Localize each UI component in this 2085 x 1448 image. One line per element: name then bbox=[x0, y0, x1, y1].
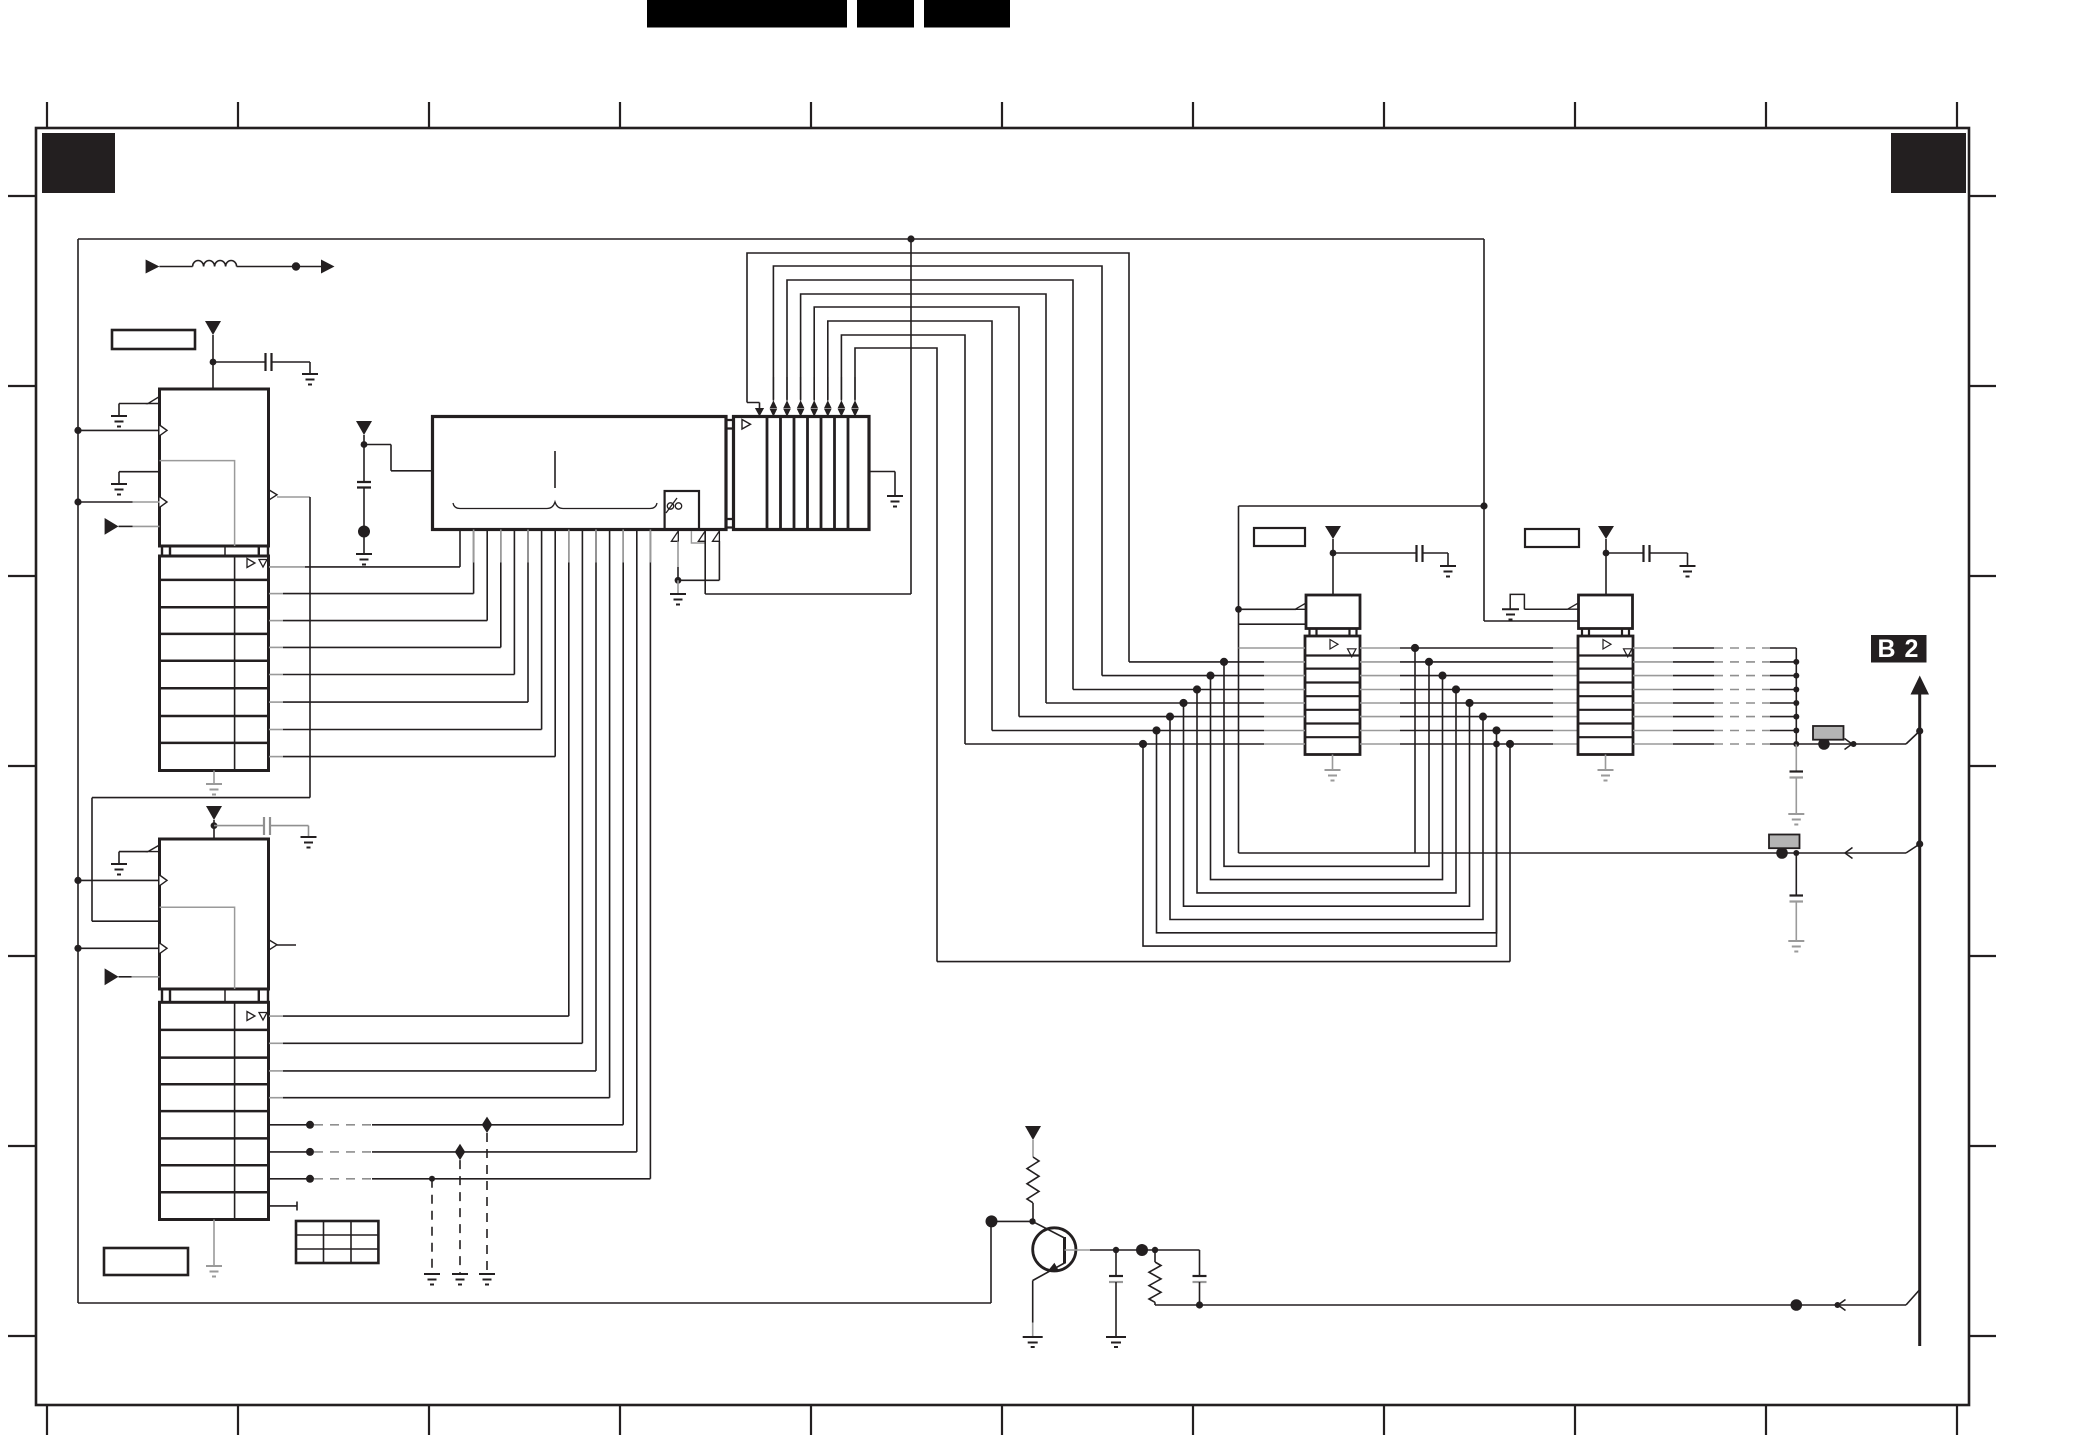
wire VCC to U2 bbox=[213, 820, 215, 839]
IC2 table row lines bbox=[160, 1030, 269, 1192]
corner reference square top-left bbox=[42, 133, 115, 193]
capacitor C1 bbox=[266, 353, 272, 371]
IC1 table glyph down-triangle bbox=[259, 560, 267, 568]
part code box line B (gray) bbox=[1769, 835, 1800, 849]
wire C7 to ground (gray) bbox=[1795, 778, 1797, 815]
wire emitter gray bbox=[1032, 1323, 1034, 1338]
junction row7 drop bbox=[429, 1176, 435, 1182]
test point dot collector bbox=[1136, 1244, 1148, 1256]
pin fan U3 to IC1 row5 bbox=[513, 530, 515, 675]
U6 ground stem (gray) bbox=[1605, 755, 1607, 771]
capacitor C7 bbox=[1790, 770, 1804, 772]
loop under U5 row5 bbox=[1184, 703, 1470, 906]
crystal glyph slash bbox=[666, 498, 677, 513]
net CLK main loop: left wire bbox=[77, 239, 79, 1303]
wire C9 to ground bbox=[1115, 1282, 1117, 1337]
IC1 table divider bbox=[234, 556, 236, 771]
capacitor C8 bbox=[1790, 894, 1804, 896]
capacitor C5 bbox=[1417, 545, 1423, 562]
junction C10 bottom bbox=[1196, 1301, 1203, 1308]
junction VCC node U2 bbox=[211, 822, 218, 829]
ground U4 bbox=[887, 496, 903, 507]
loop under U5 row7 bbox=[1157, 731, 1497, 933]
junction line B on B2 bus bbox=[1916, 840, 1923, 847]
U4 right pin wire to ground bbox=[869, 472, 895, 497]
ground C6 bbox=[1680, 566, 1696, 577]
ground C3 bbox=[356, 554, 372, 565]
bus loop 2 bbox=[773, 266, 1102, 676]
junction X1 net bbox=[675, 577, 682, 584]
wire VCC to U6 bbox=[1605, 539, 1607, 595]
connector grid horizontals bbox=[296, 1235, 378, 1249]
IC1 table ground stem (gray) bbox=[213, 771, 215, 785]
wire input arrow tail U1 bbox=[119, 525, 133, 527]
junction row3 left bbox=[1206, 672, 1214, 680]
U6 glyph down-triangle bbox=[1624, 649, 1633, 657]
ground clock U1 bbox=[111, 416, 127, 427]
wire IC1 row5 bbox=[269, 674, 283, 676]
capacitor C2 (gray) bbox=[264, 817, 270, 835]
row1 line U5-U6 bbox=[1400, 647, 1553, 649]
crystal glyph circles bbox=[667, 503, 673, 509]
wire IC2 row3 bbox=[269, 1070, 283, 1072]
junction bus row5 bbox=[1793, 700, 1799, 706]
pin fan U3 to IC1 row6 bbox=[527, 530, 529, 703]
arrow glyph line B bbox=[1845, 848, 1853, 859]
junction bus8 row8 bbox=[1506, 740, 1514, 748]
connector pin diagonal line A bbox=[1906, 731, 1920, 744]
junction row1 right bbox=[1411, 644, 1419, 652]
connector pin diagonal line C bbox=[1906, 1290, 1920, 1305]
junction row7 right bbox=[1492, 726, 1500, 734]
wire VCC node U3 bbox=[363, 435, 365, 445]
label box U6 bbox=[1525, 529, 1579, 547]
U6 row4 out bbox=[1633, 689, 1673, 691]
wire VCC to U5 bbox=[1332, 539, 1334, 595]
input arrow glyph U1 bbox=[105, 518, 119, 535]
bus loop 1 bbox=[747, 253, 1129, 662]
wire collector to cap C10 bbox=[1199, 1250, 1201, 1275]
pin fan U3 to IC1 row3 bbox=[486, 530, 488, 621]
wire clock tie-low U2 bbox=[119, 852, 148, 864]
bus double arrow 1 bbox=[770, 400, 778, 416]
wire VCC to capacitor C3 bbox=[363, 445, 365, 482]
junction bus row8 bbox=[1793, 741, 1799, 747]
wire line B bbox=[1239, 852, 1907, 854]
wire C1 to ground bbox=[272, 362, 311, 374]
title redaction bar 3 bbox=[924, 0, 1010, 28]
U6 row8 out bbox=[1633, 743, 1673, 745]
sheet bottom tick marks bbox=[47, 1405, 1957, 1435]
pin fan U3 to IC2 row5 bbox=[622, 530, 624, 1125]
wire IC1 row4 bbox=[269, 646, 283, 648]
input arrow glyph U2 bbox=[105, 968, 119, 985]
ground C1 bbox=[302, 374, 318, 385]
wire input B to U1 bbox=[78, 501, 133, 503]
wire input arrow tail U2 bbox=[119, 976, 132, 978]
net CLK main loop: right wire bbox=[1483, 239, 1485, 621]
junction left wire IC2 pin B bbox=[74, 945, 81, 952]
wire test point to ground bbox=[363, 537, 365, 554]
junction left wire IC1 pin A bbox=[74, 427, 81, 434]
wire IC1 row2 bbox=[269, 593, 283, 595]
bus double arrow 6 bbox=[838, 400, 846, 416]
junction row4 right bbox=[1452, 685, 1460, 693]
IC2 body bbox=[160, 839, 269, 989]
input arrow L1 left bbox=[146, 260, 160, 274]
wire IC2 row4 bbox=[269, 1097, 283, 1099]
net CLK main loop: right riser to transistor base bbox=[990, 1222, 992, 1303]
ground clock U2 bbox=[111, 864, 127, 875]
junction line C arrow bbox=[1835, 1302, 1841, 1308]
U3 to U4 link tabs bbox=[726, 420, 734, 528]
junction row6 left bbox=[1166, 713, 1174, 721]
wire IC1 row1 bbox=[269, 566, 305, 568]
wire IC2 row5 cont bbox=[372, 1124, 623, 1126]
dashes IC2 row6 bbox=[314, 1151, 372, 1153]
IC2 connector table bbox=[160, 1002, 269, 1219]
wire C10 down bbox=[1199, 1282, 1201, 1305]
U6 row7 out bbox=[1633, 730, 1673, 732]
U3 internal brace bbox=[453, 502, 657, 509]
pin fan U3 to IC2 row3 bbox=[595, 530, 597, 1071]
ground row6 bbox=[452, 1274, 468, 1285]
riser row1 right bbox=[1414, 648, 1416, 853]
ground pulse U6 bbox=[1502, 609, 1519, 619]
ground mid U1 bbox=[111, 484, 127, 495]
clock pin glyph U2 top bbox=[148, 845, 160, 852]
sheet left tick marks bbox=[8, 196, 36, 1336]
junction on inductor output bbox=[292, 262, 300, 270]
U6 row1 out bbox=[1633, 647, 1673, 649]
bus loop 3 bbox=[787, 280, 1073, 690]
junction bus row3 bbox=[1793, 673, 1799, 679]
bus double arrow 4 bbox=[810, 400, 818, 416]
ground C2 bbox=[301, 837, 317, 848]
wire C2 to ground (gray) bbox=[270, 826, 309, 837]
pin fan U3 to IC1 row8 bbox=[554, 530, 556, 757]
ground X1 bbox=[670, 594, 686, 605]
junction bus row7 bbox=[1793, 728, 1799, 734]
junction collector R2 bbox=[1152, 1247, 1158, 1253]
ground U6 (gray) bbox=[1598, 770, 1614, 781]
bus loop 6 bbox=[828, 321, 992, 731]
junction line C bbox=[1791, 1299, 1803, 1311]
junction VCC U6 bbox=[1603, 550, 1610, 557]
wire IC1 row6 bbox=[269, 701, 283, 703]
wire line A out bbox=[1796, 743, 1906, 745]
row6 line bbox=[1019, 716, 1264, 718]
pin arrow input B U2 bbox=[160, 943, 168, 954]
junction IC2 row5 bbox=[306, 1121, 314, 1129]
wire VCC to U1 bbox=[212, 335, 214, 389]
clock pin glyph X1 c bbox=[713, 531, 720, 541]
U4 glyph right-triangle bbox=[742, 420, 751, 430]
ground IC2 table (gray) bbox=[206, 1266, 222, 1277]
power symbol U6 VCC bbox=[1598, 526, 1614, 539]
junction bus row2 bbox=[1793, 659, 1799, 665]
test point dot base bbox=[986, 1215, 998, 1227]
loop under U5 row4 bbox=[1197, 690, 1456, 893]
loop under U5 row2 bbox=[1224, 662, 1429, 866]
wire IC1 row8 bbox=[269, 756, 283, 758]
dashed drop row7 bbox=[431, 1179, 433, 1274]
diamond marker row5 bbox=[482, 1117, 492, 1133]
ground C9 bbox=[1106, 1337, 1126, 1347]
row4 line bbox=[1073, 689, 1264, 691]
label box U5 bbox=[1254, 528, 1305, 546]
ground IC1 table (gray) bbox=[206, 784, 222, 795]
U4 dividers bbox=[767, 417, 848, 530]
wire base into Q1 bbox=[1033, 1221, 1065, 1238]
wire VCC to U3 pin bbox=[364, 445, 433, 471]
wire clock tie-low U1 bbox=[119, 404, 148, 417]
clock out pin glyph U2 right bbox=[269, 940, 277, 951]
wire IC2 row8 stub bbox=[269, 1202, 297, 1211]
bus loop 5 bbox=[814, 307, 1019, 717]
U6 row5 out bbox=[1633, 702, 1673, 704]
wire VCC to capacitor C6 bbox=[1606, 552, 1644, 554]
junction row5 right bbox=[1465, 699, 1473, 707]
wire U5 second pin bbox=[1239, 623, 1307, 625]
wire IC1 row3 bbox=[269, 620, 283, 622]
junction left wire IC2 pin A bbox=[74, 877, 81, 884]
pin fan U3 to IC2 row1 bbox=[568, 530, 570, 1017]
clock pin glyph X1 a bbox=[671, 531, 678, 541]
wire C5 to ground bbox=[1423, 553, 1449, 566]
transistor Q1 body bbox=[1033, 1228, 1076, 1271]
emitter arrow Q1 bbox=[1047, 1263, 1059, 1272]
wire power to resistor R1 (gray) bbox=[1032, 1140, 1034, 1157]
bus double arrow 2 bbox=[783, 400, 791, 416]
wire input B to U2 bbox=[78, 947, 160, 949]
wire cascade U1 to U2 bbox=[92, 497, 310, 921]
junction bus row6 bbox=[1793, 714, 1799, 720]
U3 internal divider line bbox=[554, 451, 556, 488]
junction row6 right bbox=[1479, 713, 1487, 721]
wire cap C9 bbox=[1115, 1250, 1117, 1275]
pin fan U3 to IC2 row4 bbox=[609, 530, 611, 1098]
junction VCC U3 bbox=[361, 441, 368, 448]
IC2 table divider bbox=[234, 1002, 236, 1219]
row7 line bbox=[992, 730, 1264, 732]
pin fan U3 to IC2 row6 bbox=[636, 530, 638, 1152]
U6 head block bbox=[1579, 595, 1633, 629]
wire C8 to ground (gray) bbox=[1795, 902, 1797, 942]
capacitor C6 bbox=[1644, 545, 1650, 562]
ground C8 (gray) bbox=[1788, 941, 1804, 952]
pin fan U3 to IC1 row1 bbox=[459, 530, 461, 567]
junction line B cap branch bbox=[1793, 850, 1799, 856]
clock pin glyph X1 b bbox=[698, 531, 705, 541]
junction base node bbox=[1029, 1218, 1035, 1224]
pin fan gray tops bbox=[474, 530, 651, 563]
junction row4 left bbox=[1193, 685, 1201, 693]
ground emitter bbox=[1023, 1337, 1043, 1347]
row2 line bbox=[1129, 661, 1264, 663]
wire VCC to capacitor C1 bbox=[213, 361, 266, 363]
junction right wire branch to IC3 bbox=[1480, 502, 1487, 509]
junction VCC node U1 bbox=[210, 359, 217, 366]
power symbol U3 VCC bbox=[356, 421, 372, 435]
transistor Q1 emitter bbox=[1033, 1263, 1065, 1281]
junction row2 left bbox=[1220, 658, 1228, 666]
row8 line bbox=[965, 743, 1264, 745]
wire emitter down bbox=[1032, 1281, 1034, 1323]
title redaction bar 1 bbox=[647, 0, 847, 28]
U6 glyph right-triangle bbox=[1603, 640, 1611, 650]
wire X1a drop (black) bbox=[677, 567, 679, 580]
pin arrow input B U1 bbox=[160, 497, 168, 508]
bus double arrow 5 bbox=[824, 400, 832, 416]
U5 glyph down-triangle bbox=[1348, 649, 1357, 657]
loop under U5 row3 bbox=[1211, 676, 1443, 880]
U6 table bbox=[1578, 636, 1633, 755]
IC2 internal section (gray) bbox=[160, 907, 235, 989]
wire U5 clock pin bbox=[1239, 608, 1297, 610]
bus double arrow 7 bbox=[851, 400, 859, 416]
wire X1a to X1c bbox=[678, 541, 719, 580]
U6 row6 out bbox=[1633, 716, 1673, 718]
resistor R1 bbox=[1027, 1157, 1039, 1203]
wire input arrow gray U1 bbox=[133, 525, 160, 527]
U3 body bbox=[433, 417, 727, 530]
bus loop 8 lower run bbox=[937, 744, 1510, 962]
junction IC2 row7 bbox=[306, 1175, 314, 1183]
junction row8 right bbox=[1493, 741, 1500, 748]
power symbol U5 VCC bbox=[1325, 526, 1341, 539]
corner reference square top-right bbox=[1891, 133, 1966, 193]
wire VCC to capacitor C5 bbox=[1333, 552, 1417, 554]
label box U1 bbox=[112, 330, 195, 349]
wire inductor to output arrow bbox=[237, 266, 321, 268]
junction row2 right bbox=[1425, 658, 1433, 666]
arrow glyph line C bbox=[1838, 1300, 1846, 1311]
IC1 table row lines bbox=[160, 580, 269, 743]
test point dot line B bbox=[1776, 847, 1788, 859]
wire input arrow gray U2 bbox=[132, 976, 160, 978]
test point dot line A bbox=[1818, 738, 1830, 750]
title redaction bar 2 bbox=[857, 0, 914, 28]
wire IC2 row5 bbox=[269, 1124, 310, 1126]
U6 row3 out bbox=[1633, 675, 1673, 677]
pin fan U3 to IC2 row2 bbox=[581, 530, 583, 1044]
IC1 neck tabs bbox=[162, 546, 268, 556]
ground C7 (gray) bbox=[1788, 814, 1804, 825]
U5 table bbox=[1305, 636, 1360, 755]
crystal box X1 bbox=[665, 491, 699, 530]
U5 glyph right-triangle bbox=[1330, 640, 1338, 650]
U6 table row lines bbox=[1578, 656, 1633, 738]
arrow glyph line A bbox=[1845, 739, 1853, 750]
wire X1 net ground stem bbox=[677, 580, 679, 594]
junction row3 right bbox=[1438, 672, 1446, 680]
svg-text:B 2: B 2 bbox=[1878, 635, 1920, 663]
clock pin glyph U1 top bbox=[148, 397, 160, 404]
IC2 table ground stem (gray) bbox=[213, 1220, 215, 1267]
row5 line bbox=[1046, 702, 1264, 704]
junction top wire to center drop bbox=[907, 235, 914, 242]
output arrow L1 right bbox=[321, 260, 335, 274]
sheet right tick marks bbox=[1969, 196, 1996, 1336]
junction line A on B2 bus bbox=[1916, 727, 1923, 734]
junction row5 left bbox=[1179, 699, 1187, 707]
transistor Q1 base bar bbox=[1063, 1237, 1066, 1264]
pin fan U3 to IC1 row4 bbox=[500, 530, 502, 648]
wire input B gray segment bbox=[133, 501, 160, 503]
wire bus jog into U4 bbox=[747, 403, 760, 411]
inductor L1 bbox=[193, 261, 237, 267]
wire bus to capacitor C7 (gray) bbox=[1795, 744, 1797, 771]
wire IC2 row1 bbox=[269, 1015, 283, 1017]
pin fan U3 to IC1 row7 bbox=[541, 530, 543, 730]
capacitor C10 bbox=[1193, 1275, 1207, 1277]
bus loop 7 bbox=[841, 335, 965, 744]
junction left wire IC1 pin B bbox=[74, 498, 81, 505]
junction row7 left bbox=[1152, 726, 1160, 734]
wire VCC to capacitor C2 (gray) bbox=[214, 825, 264, 827]
power symbol U2 VCC bbox=[206, 806, 222, 820]
junction collector cap1 bbox=[1113, 1247, 1119, 1253]
capacitor C3 bbox=[357, 482, 371, 488]
junction VCC U5 bbox=[1330, 550, 1337, 557]
collector bus vertical bbox=[1795, 648, 1797, 744]
junction row8 left bbox=[1139, 740, 1147, 748]
wire input A to U2 bbox=[78, 879, 160, 881]
pulse step glyph (gray) bbox=[691, 531, 704, 543]
loop under U5 row6 bbox=[1170, 717, 1483, 920]
clock pin glyph U6 bbox=[1568, 603, 1579, 609]
ground row7 bbox=[424, 1274, 440, 1285]
wire IC1 row7 bbox=[269, 729, 283, 731]
connector pin diagonal line B bbox=[1906, 844, 1920, 853]
loop under U5 row8 bbox=[1143, 744, 1497, 946]
bus loop 4 bbox=[801, 294, 1046, 703]
bus loop 8 bbox=[855, 348, 937, 962]
IC1 internal section (gray) bbox=[160, 461, 235, 546]
junction IC2 row6 bbox=[306, 1148, 314, 1156]
bus double arrow 3 bbox=[797, 400, 805, 416]
pulse waveform glyph U6 bbox=[1510, 594, 1567, 609]
junction U5 clock bbox=[1235, 606, 1242, 613]
wire collector out bbox=[1090, 1249, 1200, 1251]
wire input A to U1 bbox=[78, 429, 160, 431]
pin fan U3 to IC1 row2 bbox=[473, 530, 475, 594]
connector grid verticals bbox=[324, 1221, 352, 1263]
test point dot U3 bbox=[358, 526, 370, 538]
dashed drop row5 bbox=[486, 1133, 488, 1274]
label box bottom-left bbox=[104, 1248, 188, 1275]
U6 neck tabs bbox=[1582, 628, 1629, 636]
pin arrow input A U1 bbox=[160, 425, 168, 436]
node B2 arrow up bbox=[1911, 676, 1930, 695]
IC2 neck tabs bbox=[162, 989, 268, 1002]
U5 head block bbox=[1306, 595, 1360, 629]
wire R1 to base node bbox=[1032, 1203, 1034, 1221]
bus gray segments above arrows bbox=[773, 377, 855, 399]
U5 ground stem (gray) bbox=[1332, 755, 1334, 771]
wire IC2 row6 cont bbox=[372, 1151, 637, 1153]
U4 body bbox=[734, 417, 870, 530]
resistor R2 bbox=[1149, 1250, 1161, 1305]
clock pin glyph U5 bbox=[1295, 603, 1306, 609]
wire line B to capacitor C8 bbox=[1795, 853, 1797, 895]
IC2 table glyph down-triangle bbox=[259, 1013, 267, 1021]
wire line C bottom bbox=[1155, 1304, 1906, 1306]
wire U5 feedback loop bbox=[1239, 506, 1485, 853]
IC1 body bbox=[160, 389, 269, 546]
wire IC2 row7 bbox=[269, 1178, 310, 1180]
